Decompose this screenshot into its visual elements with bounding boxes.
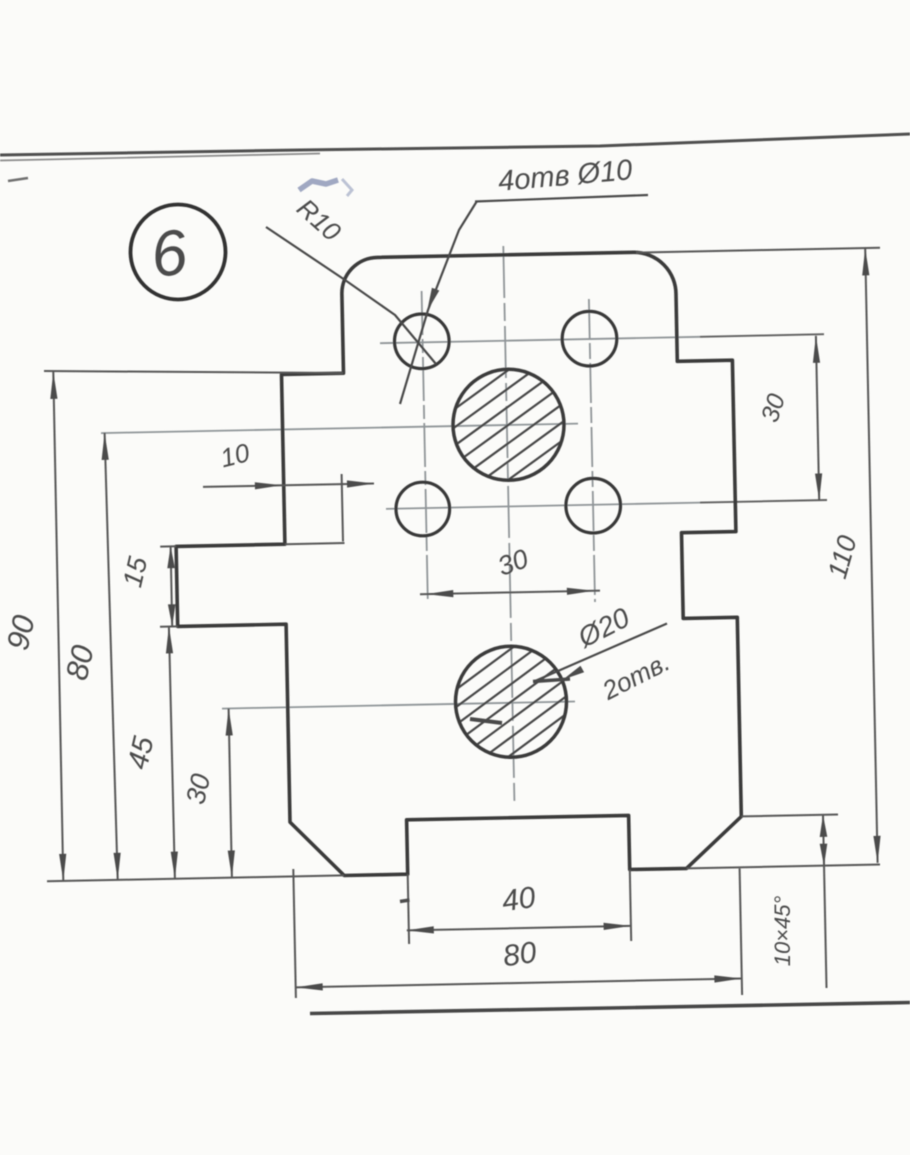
leader 4 holes d10 [400, 201, 477, 404]
dim 90 extension top [44, 371, 343, 373]
stray dash mark [8, 178, 28, 181]
blue pen smudge [299, 180, 338, 190]
hole bottom-left [396, 482, 450, 536]
centerline big top circle / 80 extension [101, 424, 578, 434]
big hatched hole top [453, 369, 564, 480]
centerline row1 holes [380, 337, 700, 343]
dim 110 extensions [636, 248, 880, 253]
dim 45 line [169, 626, 175, 878]
balloon circle 6 [131, 205, 226, 300]
svg-text:40: 40 [500, 881, 538, 918]
centerline row2 holes [386, 503, 700, 509]
leader R10 [266, 227, 436, 364]
page top border line [0, 134, 910, 155]
notch extension lines [408, 874, 409, 944]
hole bottom-right [566, 478, 621, 533]
tab extension lines [160, 545, 176, 547]
dim 80 bottom line [296, 979, 742, 988]
chamfer extension [741, 815, 838, 817]
dim 10 line [203, 484, 374, 487]
dim 15 line [171, 546, 173, 626]
leader 2 holes d20 [535, 624, 667, 682]
centerline big bottom circle / 30 extension [222, 702, 575, 709]
dim 10x45 line [823, 815, 827, 988]
dim 90 line [53, 372, 63, 881]
centerline column B [589, 299, 595, 602]
dim 30 center line [420, 591, 600, 595]
hole top-left [395, 314, 450, 369]
dim 30 right line [816, 336, 819, 501]
dim 10 extension [342, 474, 343, 542]
dim 110 line [865, 248, 877, 863]
dim 80 bottom extensions [293, 869, 296, 998]
svg-text:10×45°: 10×45° [770, 896, 795, 967]
centerline vertical center [503, 246, 514, 801]
page bottom border line [310, 1003, 910, 1014]
part outline [176, 252, 741, 875]
dim bottom extension line left [47, 875, 344, 881]
dim 40 line [407, 926, 631, 931]
dim 30 left line [229, 709, 232, 878]
dim 80 line [105, 433, 118, 880]
big hatched hole bottom [456, 646, 567, 757]
centerline column A [422, 291, 428, 601]
hole top-right [562, 311, 617, 366]
svg-text:80: 80 [501, 936, 539, 973]
